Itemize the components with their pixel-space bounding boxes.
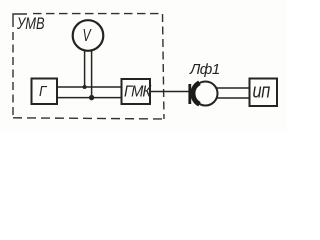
block ГМК: [122, 79, 151, 104]
transducer Лф1 membrane bar: [188, 84, 191, 104]
generator block Г: [32, 79, 58, 105]
junction dot bottom wire: [89, 95, 94, 100]
wire Г to ГМК bottom: [58, 97, 122, 99]
svg-text:Лф1: Лф1: [189, 61, 220, 78]
transducer Лф1 capsule circle: [194, 82, 218, 106]
voltmeter V1 circle: [73, 20, 104, 51]
wire transducer to ИП bottom: [217, 97, 249, 99]
svg-text:УМВ: УМВ: [16, 14, 44, 33]
svg-text:V: V: [83, 26, 93, 46]
wire voltmeter right lead: [91, 50, 93, 97]
block ИП: [250, 79, 278, 107]
transducer Лф1 thick left rim: [193, 83, 200, 104]
dashed enclosure box УМВ: [13, 14, 167, 119]
wire ГМК to transducer: [151, 91, 189, 93]
junction dot top wire: [83, 85, 87, 89]
wire voltmeter left lead: [84, 50, 86, 87]
wire Г to ГМК top: [58, 86, 122, 88]
wire transducer to ИП top: [217, 87, 250, 89]
svg-text:ип: ип: [253, 79, 271, 102]
svg-text:ГМК: ГМК: [124, 83, 152, 101]
svg-text:Г: Г: [39, 83, 48, 100]
